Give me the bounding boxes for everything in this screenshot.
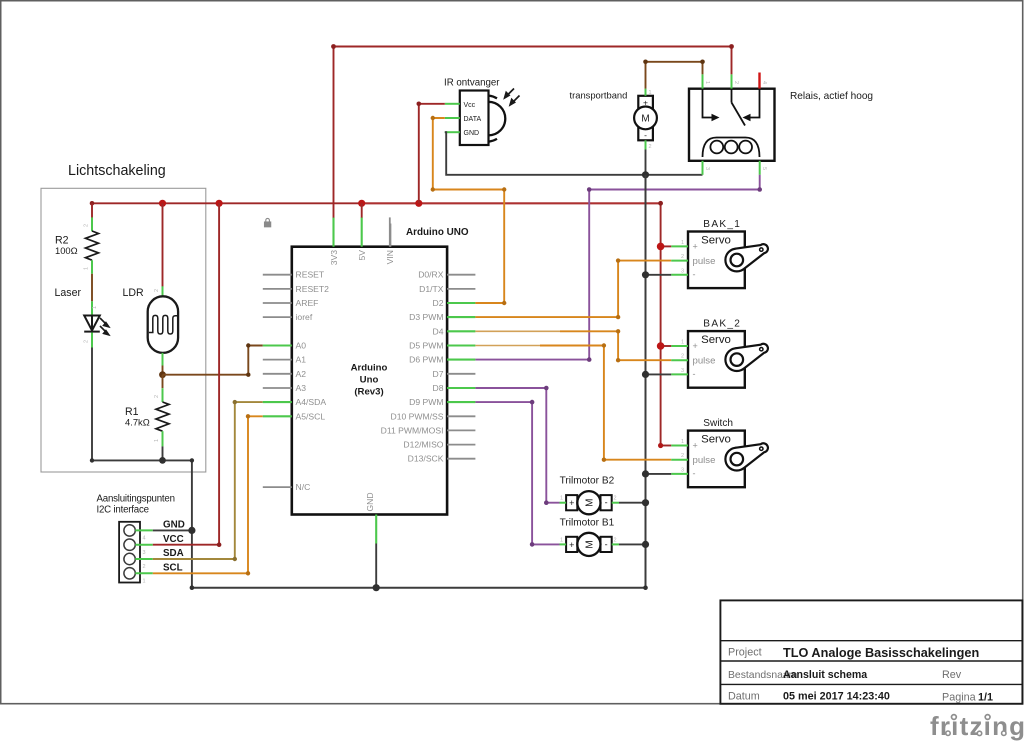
wire red 3V3 to top rail xyxy=(334,47,732,218)
node bend purple mid corner xyxy=(587,187,592,192)
pin leg Switch 3 xyxy=(671,473,688,475)
svg-text:5: 5 xyxy=(761,167,767,170)
wire black BAK_2 minus xyxy=(646,373,672,375)
node bend ground rail left corner xyxy=(190,585,195,590)
svg-text:-: - xyxy=(693,369,696,379)
node bend D3 c1 xyxy=(616,315,620,319)
pin leg IR Vcc xyxy=(445,103,460,105)
node bend red Switch xyxy=(658,443,663,448)
svg-text:-: - xyxy=(644,130,647,140)
pin leg RESET xyxy=(263,274,292,276)
svg-text:2: 2 xyxy=(681,453,684,459)
svg-text:3: 3 xyxy=(681,268,684,274)
pin leg relay 5 xyxy=(759,161,761,175)
svg-text:I2C interface: I2C interface xyxy=(97,505,149,516)
svg-text:Lichtschakeling: Lichtschakeling xyxy=(68,163,166,179)
pin leg RESET2 xyxy=(263,288,292,290)
pin leg D9 xyxy=(447,401,475,403)
pin leg relay 1 xyxy=(702,74,704,88)
node bend brown left xyxy=(643,60,648,65)
node junction 5V pin branch xyxy=(358,200,365,207)
node junction GND rail xyxy=(188,527,195,534)
svg-text:1: 1 xyxy=(560,496,563,502)
wire red Switch plus xyxy=(661,445,672,447)
svg-text:Uno: Uno xyxy=(360,375,379,386)
left pin labels xyxy=(296,270,330,492)
svg-text:2: 2 xyxy=(154,289,160,292)
svg-text:1: 1 xyxy=(560,537,563,543)
svg-text:pulse: pulse xyxy=(693,256,716,267)
pin leg D11 xyxy=(447,429,475,431)
pin leg R1.2 xyxy=(162,388,164,402)
svg-text:2: 2 xyxy=(154,395,160,398)
svg-text:(Rev3): (Rev3) xyxy=(354,387,383,398)
svg-text:+: + xyxy=(693,341,698,351)
relay common blade from pin2 xyxy=(731,89,733,103)
lock icon xyxy=(265,218,271,226)
svg-text:A2: A2 xyxy=(296,369,307,379)
pin leg B1 plus xyxy=(560,543,567,545)
servo BAK_1 horn xyxy=(725,244,768,271)
svg-text:Trilmotor B1: Trilmotor B1 xyxy=(560,517,615,528)
pin leg AREF xyxy=(263,302,292,304)
wire red 5V rail horizontal xyxy=(92,202,661,204)
node bend D5 c1 xyxy=(602,343,606,347)
svg-text:D0/RX: D0/RX xyxy=(418,270,444,280)
wire black R1 to ground rail xyxy=(162,446,164,460)
svg-text:1: 1 xyxy=(704,81,710,84)
pin leg B2 plus xyxy=(560,502,567,504)
node junction B2 ground xyxy=(642,499,649,506)
svg-text:Servo: Servo xyxy=(701,234,731,246)
wire red LDR branch down xyxy=(162,203,164,286)
svg-text:3: 3 xyxy=(681,368,684,374)
wire red stub to R2 pin 2 xyxy=(91,203,93,218)
svg-text:Arduino UNO: Arduino UNO xyxy=(406,227,469,238)
svg-text:Relais, actief hoog: Relais, actief hoog xyxy=(790,91,873,102)
wire black IR GND to ground line xyxy=(445,132,703,175)
node bend brown right xyxy=(700,60,705,65)
wire purple relay pin5 to D6 xyxy=(475,175,759,360)
pin leg Switch 1 xyxy=(671,445,688,447)
svg-text:-: - xyxy=(693,270,696,280)
pin leg LDR.1 xyxy=(162,353,164,366)
pin leg A3 xyxy=(263,387,292,389)
relay contact from pin4 xyxy=(749,89,760,118)
node junction Switch minus xyxy=(642,470,649,477)
node bend D8 c1 xyxy=(544,386,549,391)
connector J1 I2C header body xyxy=(119,522,140,583)
svg-text:+: + xyxy=(693,242,698,252)
relay contact from pin1 xyxy=(703,89,714,118)
pin leg D13 xyxy=(447,458,475,460)
node junction B1 ground xyxy=(642,541,649,548)
svg-text:A5/SCL: A5/SCL xyxy=(296,411,326,421)
pin leg 5V xyxy=(361,217,363,246)
svg-text:RESET: RESET xyxy=(296,270,325,280)
node bend VCC corner xyxy=(217,542,222,547)
title block outer xyxy=(720,600,1022,703)
relay K1 body xyxy=(689,89,775,161)
pin leg D2 xyxy=(447,302,475,304)
node bend purple low corner xyxy=(587,357,592,362)
svg-text:2: 2 xyxy=(84,224,90,227)
svg-text:2: 2 xyxy=(681,354,684,360)
wire purple D9 to trilmotor B1 xyxy=(475,402,559,544)
svg-text:Project: Project xyxy=(728,647,762,659)
node bend brown corner high xyxy=(246,343,250,347)
svg-text:D10 PWM/SS: D10 PWM/SS xyxy=(390,411,443,421)
vibration motor B2 body xyxy=(566,495,577,510)
svg-text:A4/SDA: A4/SDA xyxy=(296,397,327,407)
wire brown junction to R1 xyxy=(162,375,164,389)
wire red IR Vcc xyxy=(419,104,445,204)
pin leg A4/SDA xyxy=(263,401,292,403)
svg-text:M: M xyxy=(585,499,596,507)
node bend SDA corner high xyxy=(233,400,237,404)
pin leg 3V3 xyxy=(332,217,334,246)
node junction IR Vcc branch xyxy=(415,200,422,207)
svg-text:1/1: 1/1 xyxy=(978,692,993,704)
svg-text:Vcc: Vcc xyxy=(464,102,476,109)
wire black motor minus down xyxy=(645,150,647,176)
svg-text:GND: GND xyxy=(464,130,480,137)
wire orange D3 to BAK_1 pulse xyxy=(475,261,671,318)
right pins gray group xyxy=(447,275,475,459)
svg-text:D5 PWM: D5 PWM xyxy=(409,341,443,351)
svg-text:pulse: pulse xyxy=(693,356,716,367)
pin leg header VCC xyxy=(135,544,153,546)
node bend D9 c2 xyxy=(530,542,535,547)
svg-text:TLO Analoge Basisschakelingen: TLO Analoge Basisschakelingen xyxy=(783,646,979,660)
pin leg IR GND xyxy=(445,131,460,133)
wire black ground rail to right corner xyxy=(191,460,193,587)
wire red BAK_2 plus xyxy=(661,345,672,347)
pin leg Laser.1 xyxy=(91,301,93,315)
node bend top-left xyxy=(331,44,336,49)
svg-text:LDR: LDR xyxy=(123,287,145,299)
pin leg motor 1 xyxy=(645,89,647,96)
svg-text:Aansluitingspunten: Aansluitingspunten xyxy=(97,494,175,505)
svg-text:D8: D8 xyxy=(433,383,444,393)
pin leg VIN xyxy=(389,217,391,246)
node bend at R2 top corner xyxy=(90,201,95,206)
svg-text:Rev: Rev xyxy=(942,669,962,681)
pin leg header GND xyxy=(135,529,153,531)
svg-text:RESET2: RESET2 xyxy=(296,284,330,294)
wire black header GND to rail xyxy=(153,529,192,531)
pin leg GND bottom xyxy=(375,515,377,544)
svg-text:ioref: ioref xyxy=(296,312,313,322)
svg-text:GND: GND xyxy=(163,520,185,531)
svg-text:DATA: DATA xyxy=(464,116,482,123)
svg-text:1: 1 xyxy=(143,578,146,584)
node bend D3 c2 xyxy=(616,258,620,262)
svg-text:100Ω: 100Ω xyxy=(55,245,78,256)
pin leg D4 xyxy=(447,330,475,332)
svg-text:Trilmotor B2: Trilmotor B2 xyxy=(560,476,615,487)
svg-text:2: 2 xyxy=(733,81,739,84)
node bend SCL corner high xyxy=(246,414,250,418)
pin leg BAK_1 3 xyxy=(671,274,688,276)
pin leg D12 xyxy=(447,444,475,446)
svg-text:+: + xyxy=(693,441,698,451)
pin circle 4 xyxy=(124,525,135,536)
pin leg BAK_2 1 xyxy=(671,345,688,347)
svg-text:1: 1 xyxy=(649,90,652,96)
wire purple D8 to trilmotor B2 xyxy=(475,388,559,503)
svg-text:A0: A0 xyxy=(296,341,307,351)
svg-text:SDA: SDA xyxy=(163,548,184,559)
node bend D4 c2 xyxy=(616,358,620,362)
wire black GND pin to rail xyxy=(375,544,377,588)
svg-text:3V3: 3V3 xyxy=(329,250,339,266)
svg-text:IR ontvanger: IR ontvanger xyxy=(444,78,500,89)
node bend ground corner xyxy=(190,458,194,462)
pin leg D7 xyxy=(447,373,475,375)
pin leg relay 3 xyxy=(702,161,704,175)
svg-text:-: - xyxy=(605,498,608,508)
svg-text:3: 3 xyxy=(143,550,146,556)
svg-text:1: 1 xyxy=(681,439,684,445)
svg-text:2: 2 xyxy=(649,144,652,150)
pin leg D1/TX xyxy=(447,288,475,290)
svg-text:D2: D2 xyxy=(433,298,444,308)
pin leg D6 xyxy=(447,359,475,361)
wire red servo supply bus xyxy=(660,203,662,445)
svg-text:4: 4 xyxy=(143,536,146,542)
IR receiver U2 body xyxy=(460,91,489,146)
node bend brown corner low xyxy=(246,373,250,377)
node bend SDA corner low xyxy=(233,557,237,561)
svg-text:D6 PWM: D6 PWM xyxy=(409,355,443,365)
wire orange IR DATA to D2 xyxy=(433,118,504,303)
node junction LDR/R1/A0 xyxy=(159,371,166,378)
node bend DATA c2 xyxy=(431,187,435,191)
svg-text:Laser: Laser xyxy=(55,287,82,299)
pin leg A1 xyxy=(263,359,292,361)
svg-text:A3: A3 xyxy=(296,383,307,393)
node junction BAK_1 minus xyxy=(642,271,649,278)
svg-text:pulse: pulse xyxy=(693,455,716,466)
svg-text:AREF: AREF xyxy=(296,298,319,308)
node junction BAK_2 minus xyxy=(642,371,649,378)
svg-text:Arduino: Arduino xyxy=(351,363,388,374)
wire black B2 minus to bus xyxy=(619,502,646,504)
svg-text:-: - xyxy=(605,539,608,549)
wire orange header SCL to A5 xyxy=(153,416,263,573)
svg-text:BAK_2: BAK_2 xyxy=(703,319,741,330)
wire brown motor to relay coil top xyxy=(646,62,703,89)
pin leg N/C xyxy=(263,486,292,488)
svg-text:5V: 5V xyxy=(357,250,367,261)
svg-text:Datum: Datum xyxy=(728,690,760,702)
svg-text:+: + xyxy=(569,498,574,508)
svg-text:M: M xyxy=(641,114,649,125)
servo Switch body xyxy=(688,431,745,488)
pin leg BAK_1 1 xyxy=(671,245,688,247)
svg-text:2: 2 xyxy=(614,496,617,502)
svg-text:2: 2 xyxy=(84,340,90,343)
svg-text:VIN: VIN xyxy=(385,250,395,264)
pin leg A5/SCL xyxy=(263,415,292,417)
resistor R1 xyxy=(156,402,169,431)
pin leg R1.1 xyxy=(162,431,164,446)
svg-text:3: 3 xyxy=(681,467,684,473)
Lichtschakeling enclosure box xyxy=(41,188,206,472)
node junction arduino GND on rail xyxy=(373,584,380,591)
svg-text:D12/MISO: D12/MISO xyxy=(403,440,443,450)
svg-text:transportband: transportband xyxy=(570,90,628,101)
node bend purple relay corner xyxy=(757,187,762,192)
svg-text:M: M xyxy=(585,540,596,548)
node bend laser wire corner xyxy=(90,458,94,462)
svg-text:3: 3 xyxy=(704,167,710,170)
servo BAK_2 horn xyxy=(725,344,768,371)
node bend D4 c1 xyxy=(616,329,620,333)
svg-text:fritzing: fritzing xyxy=(930,711,1024,741)
svg-text:1: 1 xyxy=(92,306,98,309)
svg-text:GND: GND xyxy=(365,492,375,511)
node bend D8 c2 xyxy=(544,500,549,505)
pin leg BAK_2 2 xyxy=(671,359,688,361)
svg-text:N/C: N/C xyxy=(296,482,311,492)
svg-text:D7: D7 xyxy=(433,369,444,379)
node bend ground bus corner xyxy=(643,585,648,590)
node junction red BAK_2 xyxy=(657,342,665,350)
node junction LDR branch xyxy=(159,200,166,207)
svg-text:1: 1 xyxy=(84,267,90,270)
pin leg A0 xyxy=(263,344,292,346)
wire black BAK_1 minus xyxy=(646,274,672,276)
pin leg Laser.2 xyxy=(91,333,93,348)
pin leg ioref xyxy=(263,316,292,318)
node bend DATA c1 xyxy=(431,116,435,120)
LDR resistive meander xyxy=(149,315,177,334)
svg-text:Switch: Switch xyxy=(703,418,733,429)
node bend red bus top xyxy=(658,201,663,206)
IR arrows xyxy=(505,89,520,105)
pin leg D10 xyxy=(447,415,475,417)
pin leg B2 minus xyxy=(612,502,619,504)
svg-text:D9 PWM: D9 PWM xyxy=(409,397,443,407)
wire red header VCC xyxy=(153,203,219,544)
svg-text:Aansluit schema: Aansluit schema xyxy=(783,669,867,681)
node junction I2C VCC branch xyxy=(216,200,223,207)
pin leg R2.1 xyxy=(91,260,93,274)
svg-text:4: 4 xyxy=(761,81,767,84)
pin leg B1 minus xyxy=(612,543,619,545)
pin leg relay 4 unconnected xyxy=(758,73,760,89)
wire red 5V stub xyxy=(361,203,363,217)
svg-text:Servo: Servo xyxy=(701,433,731,445)
pin leg Switch 2 xyxy=(671,459,688,461)
svg-text:VCC: VCC xyxy=(163,534,184,545)
node bend D9 c1 xyxy=(530,400,535,405)
pin leg A2 xyxy=(263,373,292,375)
node bend DATA c4 xyxy=(502,301,506,305)
svg-text:1: 1 xyxy=(154,439,160,442)
left pins group xyxy=(263,275,292,487)
wire brown R2 to Laser xyxy=(91,274,93,302)
svg-text:D13/SCK: D13/SCK xyxy=(408,454,444,464)
svg-text:SCL: SCL xyxy=(163,562,183,573)
wire olive header SDA to A4 xyxy=(153,402,263,559)
wire black Laser cathode down xyxy=(92,348,192,461)
svg-text:D4: D4 xyxy=(433,326,444,336)
wire black Switch minus xyxy=(646,473,672,475)
svg-text:A1: A1 xyxy=(296,355,307,365)
pin leg header SDA xyxy=(135,558,153,560)
svg-text:2: 2 xyxy=(681,254,684,260)
wire black ground bus vertical + bottom rail xyxy=(192,175,646,588)
relay coil xyxy=(703,138,760,158)
node bend top-right xyxy=(729,44,734,49)
svg-text:1: 1 xyxy=(681,340,684,346)
svg-text:BAK_1: BAK_1 xyxy=(703,219,741,230)
Arduino U1 body xyxy=(292,247,447,515)
svg-text:D3 PWM: D3 PWM xyxy=(409,312,443,322)
Laser emission arrows xyxy=(100,318,109,335)
pin leg D5 xyxy=(447,344,475,346)
node junction red BAK_1 xyxy=(657,243,665,251)
pin leg BAK_2 3 xyxy=(671,373,688,375)
svg-text:1: 1 xyxy=(681,240,684,246)
wire brown LDR to junction xyxy=(162,366,164,375)
right pins green group xyxy=(447,303,475,402)
wire orange D5 to Switch pulse xyxy=(540,346,671,460)
pin leg header SCL xyxy=(135,572,153,574)
wire brown junction to A0 xyxy=(163,346,263,375)
resistor R2 xyxy=(86,231,99,260)
pin circle 1 xyxy=(124,568,135,579)
pin circle 2 xyxy=(124,553,135,564)
svg-text:2: 2 xyxy=(614,537,617,543)
node junction motor ground xyxy=(642,171,649,178)
pin leg D3 xyxy=(447,316,475,318)
svg-text:Servo: Servo xyxy=(701,334,731,346)
svg-text:D11 PWM/MOSI: D11 PWM/MOSI xyxy=(381,425,444,435)
svg-text:05 mei 2017 14:23:40: 05 mei 2017 14:23:40 xyxy=(783,690,890,702)
svg-text:Pagina: Pagina xyxy=(942,692,976,704)
wire black B1 minus to bus xyxy=(619,543,646,545)
pin leg D0/RX xyxy=(447,274,475,276)
LDR photoresistor body xyxy=(148,296,178,353)
node bend IR vcc corner xyxy=(417,102,422,107)
svg-text:D1/TX: D1/TX xyxy=(419,284,444,294)
pin leg relay 2 xyxy=(731,74,733,88)
right pin labels xyxy=(381,270,444,464)
pin leg LDR.2 xyxy=(162,286,164,296)
svg-text:2: 2 xyxy=(143,564,146,570)
pin leg D8 xyxy=(447,387,475,389)
node bend SCL corner low xyxy=(246,571,250,575)
pin leg BAK_1 2 xyxy=(671,260,688,262)
node junction R1 ground xyxy=(159,457,166,464)
pin circle 3 xyxy=(124,539,135,550)
svg-text:-: - xyxy=(693,469,696,479)
IR receiver lens xyxy=(489,102,506,136)
node bend DATA c3 xyxy=(502,187,506,191)
motor M1 transportband body xyxy=(638,96,653,141)
servo Switch horn xyxy=(725,443,768,470)
pin leg R2.2 xyxy=(91,217,93,231)
wire red BAK_1 plus xyxy=(661,245,672,247)
pin leg IR DATA xyxy=(445,117,460,119)
vibration motor B1 body xyxy=(566,537,577,552)
wire orange D4 to BAK_2 pulse xyxy=(560,331,671,360)
node bend D5 c2 xyxy=(602,458,606,462)
